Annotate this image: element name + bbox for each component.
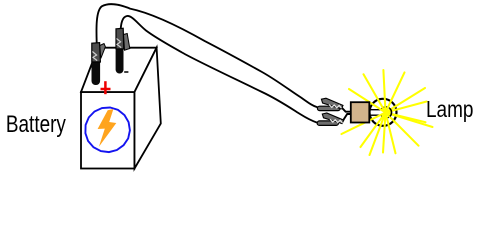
alligator clip on negative battery terminal bbox=[116, 28, 130, 73]
alligator clip on lower lamp terminal bbox=[317, 113, 351, 125]
svg-text:Battery: Battery bbox=[6, 111, 66, 138]
battery box top face bbox=[81, 48, 157, 92]
lamp filament leads bbox=[368, 107, 391, 118]
lamp filament hook loop right arc bbox=[390, 109, 392, 117]
alligator clip on upper lamp terminal bbox=[317, 98, 351, 112]
alligator clip on positive battery terminal bbox=[92, 43, 106, 85]
battery emblem lightning bolt bbox=[98, 109, 117, 147]
battery box front face bbox=[81, 92, 135, 169]
lamp bulb dashed glass circle bbox=[370, 99, 397, 126]
battery emblem blue circle bbox=[85, 108, 129, 153]
minus polarity mark bbox=[124, 71, 128, 73]
svg-text:Lamp: Lamp bbox=[426, 96, 474, 122]
plus polarity mark bbox=[101, 81, 111, 94]
lamp base bbox=[351, 102, 370, 122]
wire from negative battery clip to lower lamp clip bbox=[121, 16, 318, 123]
battery box right face bbox=[135, 48, 161, 169]
lamp light rays bbox=[342, 70, 433, 155]
wire from positive battery clip to upper lamp clip bbox=[96, 4, 317, 107]
